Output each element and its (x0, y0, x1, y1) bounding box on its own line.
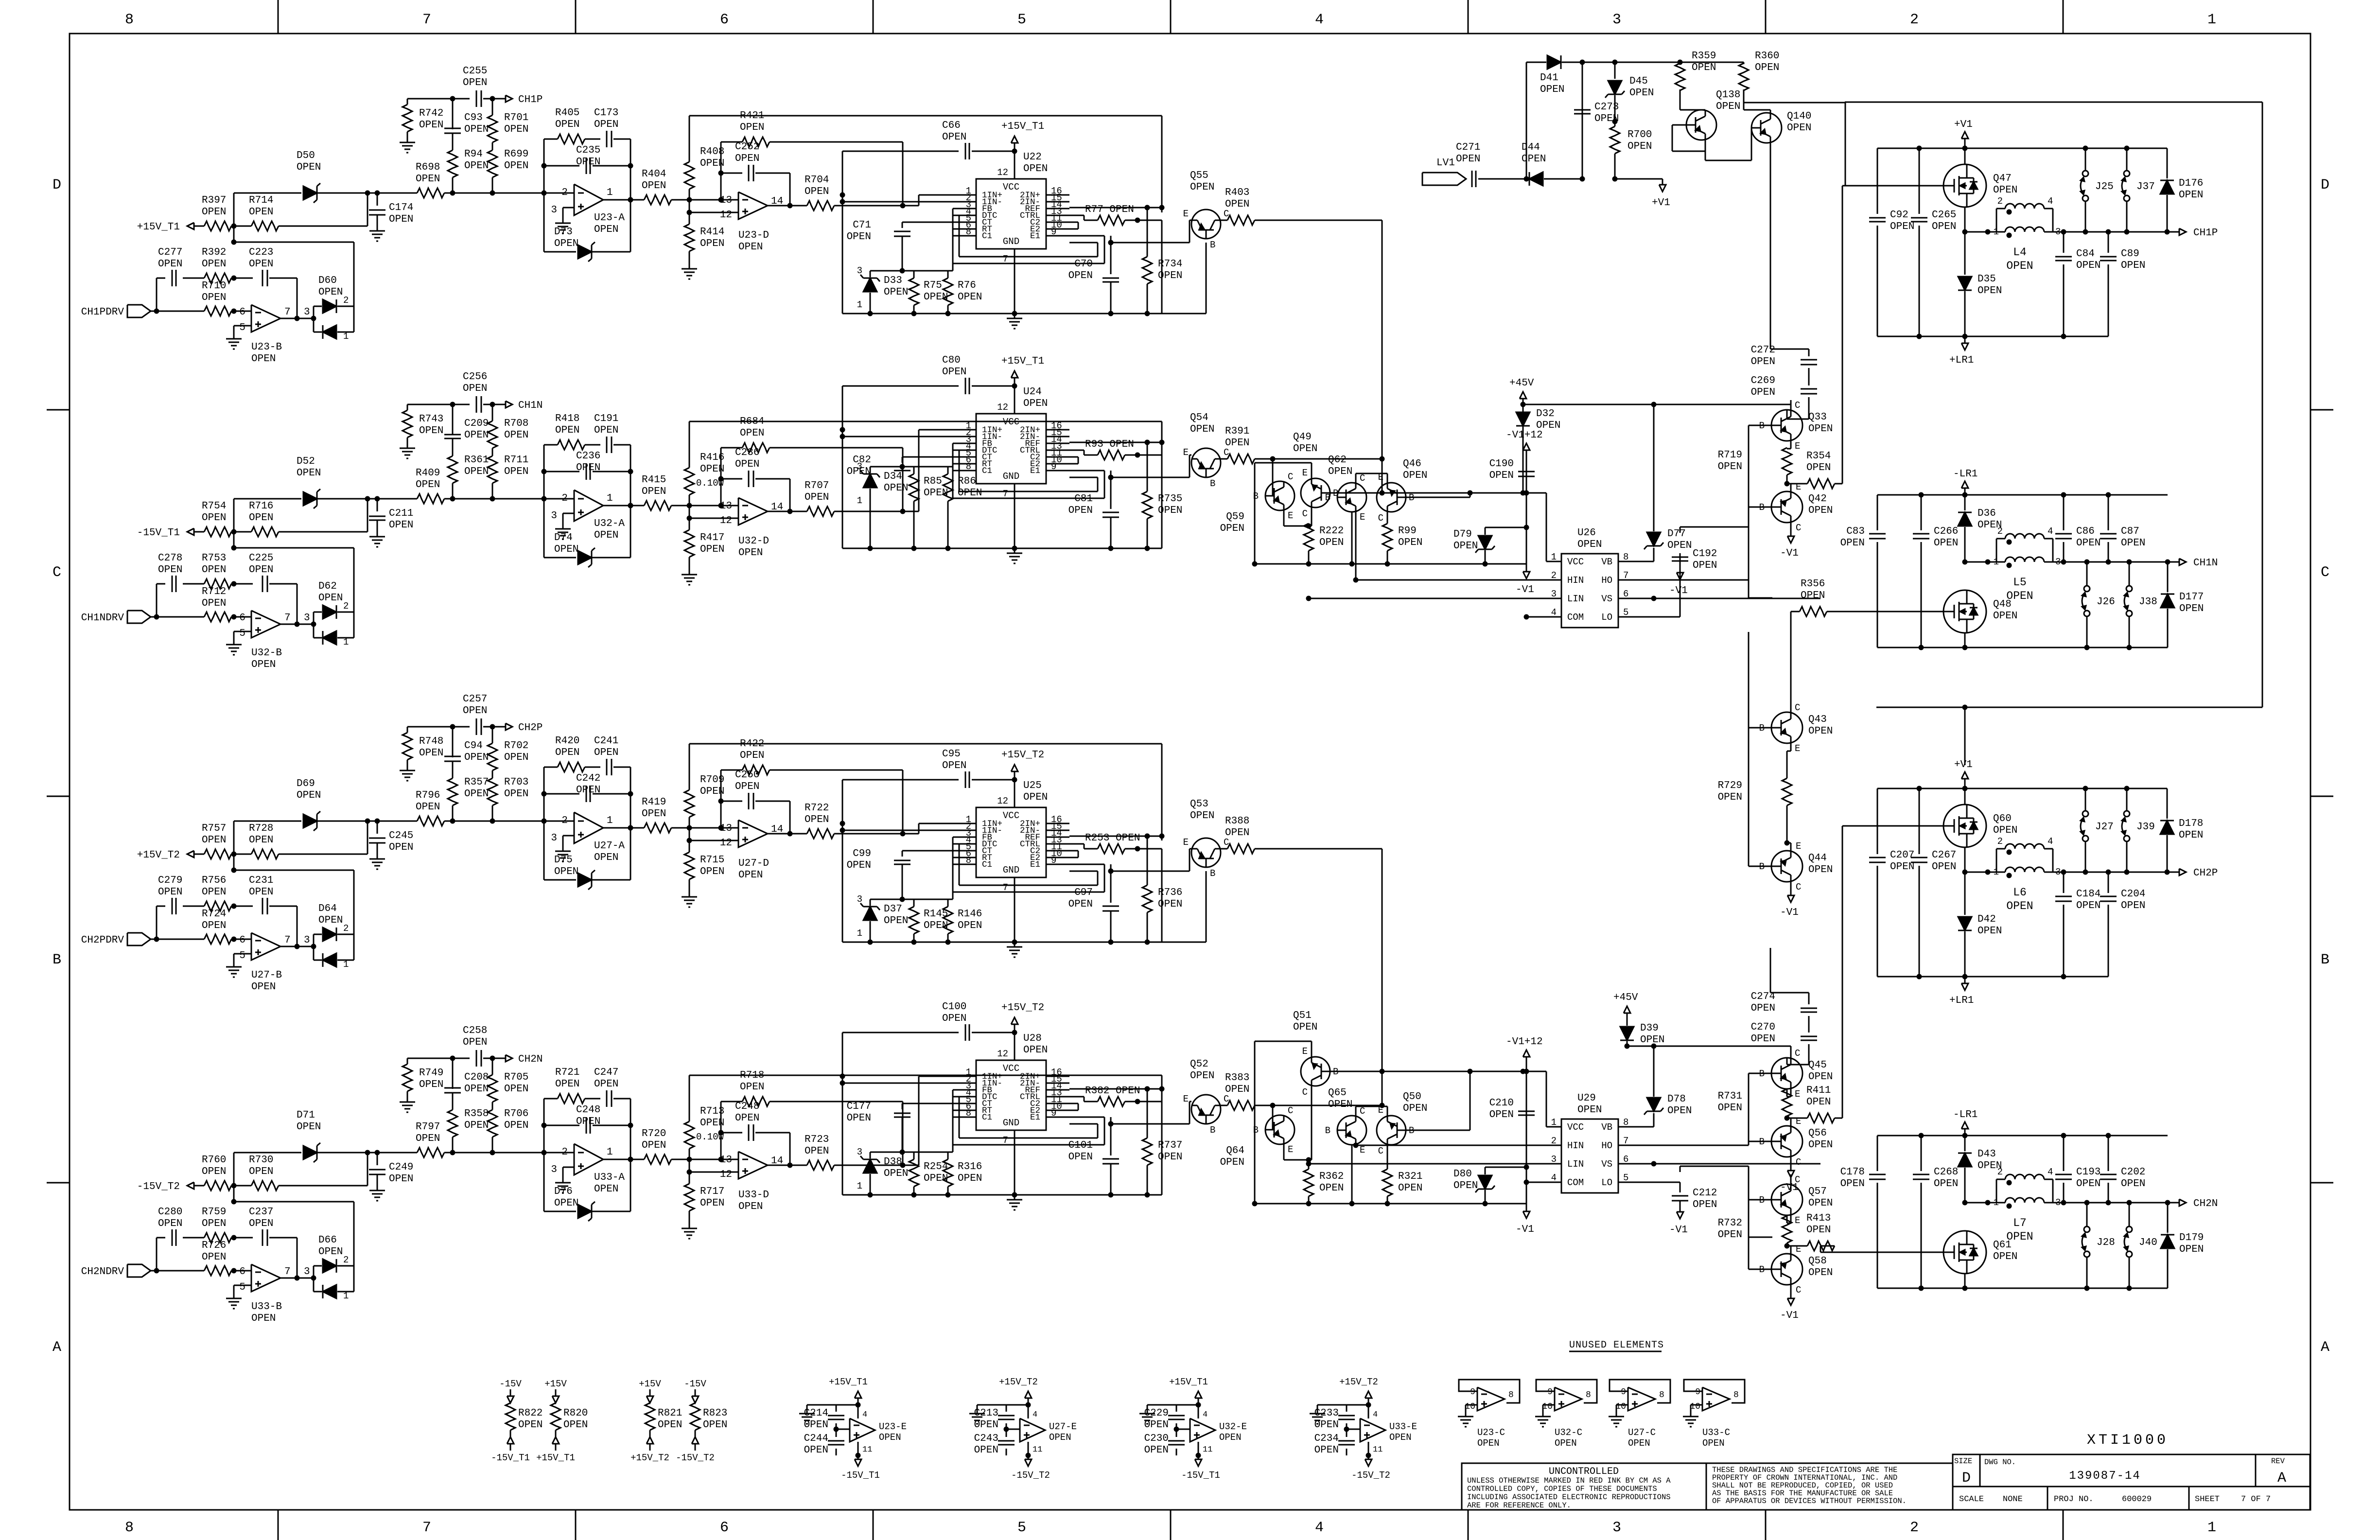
wire (718, 142, 724, 176)
diode D45 (1605, 62, 1654, 124)
svg-text:OPEN: OPEN (464, 160, 489, 172)
resistor R405 (544, 107, 585, 144)
wire (183, 583, 204, 585)
diode D38 (857, 1147, 909, 1195)
svg-text:OPEN: OPEN (555, 747, 579, 758)
svg-text:OPEN: OPEN (1456, 154, 1480, 165)
svg-text:C: C (1302, 1087, 1308, 1098)
wire (2053, 229, 2179, 235)
wire (231, 614, 252, 620)
resistor R698 (377, 162, 574, 198)
svg-text:6: 6 (239, 935, 245, 946)
svg-text:OPEN: OPEN (594, 747, 618, 758)
jumper J40 (2124, 1203, 2157, 1288)
svg-text:R754: R754 (202, 501, 226, 512)
svg-text:VB: VB (1601, 1122, 1612, 1133)
svg-text:D66: D66 (318, 1235, 337, 1246)
wire (1790, 404, 1792, 410)
svg-text:+15V_T1: +15V_T1 (829, 1377, 868, 1387)
svg-text:R796: R796 (416, 790, 440, 801)
transistor Q59 (1220, 459, 1295, 534)
wire (563, 836, 574, 846)
wire (977, 1405, 1028, 1409)
svg-text:XTI1000: XTI1000 (2087, 1432, 2169, 1449)
wire (563, 1167, 574, 1178)
svg-text:OPEN: OPEN (464, 430, 489, 441)
resistor R742 (402, 99, 443, 138)
svg-text:Q33: Q33 (1808, 412, 1827, 423)
wire (1618, 579, 1749, 581)
node -15V_T1 (137, 527, 194, 539)
svg-text:C271: C271 (1456, 142, 1480, 153)
svg-text:VCC: VCC (1003, 810, 1019, 821)
svg-text:OPEN: OPEN (249, 887, 273, 898)
resistor R421 (721, 110, 903, 206)
svg-text:12: 12 (997, 402, 1008, 413)
diode D176 (2160, 148, 2203, 232)
capacitor C66 (842, 120, 1017, 159)
svg-text:D39: D39 (1640, 1023, 1659, 1034)
resistor R723 (805, 1134, 919, 1170)
capacitor C95 (842, 749, 1017, 788)
svg-text:5: 5 (1017, 12, 1026, 28)
svg-text:J40: J40 (2139, 1237, 2157, 1248)
wire (1161, 849, 1163, 942)
svg-text:D38: D38 (884, 1156, 902, 1168)
node +15V_T2 (1001, 750, 1044, 771)
resistor R222 (1304, 524, 1344, 564)
wire (919, 430, 953, 511)
resistor R759 (202, 1207, 231, 1242)
ground (400, 443, 415, 458)
svg-text:OPEN: OPEN (1225, 827, 1249, 839)
svg-text:OPEN: OPEN (419, 425, 443, 437)
svg-text:4: 4 (1373, 1410, 1378, 1419)
svg-text:OPEN: OPEN (740, 428, 764, 439)
node -15V_T1 (841, 1453, 880, 1481)
svg-text:COM: COM (1567, 612, 1584, 623)
svg-text:OPEN: OPEN (1144, 1419, 1169, 1431)
resistor R254 (909, 1152, 948, 1195)
svg-text:R146: R146 (958, 909, 982, 920)
wire (1964, 139, 1966, 148)
svg-text:Q43: Q43 (1808, 714, 1827, 725)
svg-text:R705: R705 (504, 1072, 528, 1083)
wire (1069, 205, 1165, 210)
ground (555, 218, 571, 233)
svg-text:A: A (52, 1339, 61, 1356)
node -15V_T1 (1181, 1453, 1220, 1481)
svg-text:5: 5 (239, 628, 245, 639)
svg-text:C207: C207 (1890, 850, 1914, 861)
svg-text:OPEN: OPEN (463, 383, 487, 394)
svg-text:1: 1 (1551, 552, 1557, 562)
svg-text:OPEN: OPEN (1977, 926, 2002, 937)
svg-text:R706: R706 (504, 1108, 528, 1120)
wire (1787, 1058, 1809, 1065)
svg-text:VCC: VCC (1003, 182, 1019, 192)
ground (1310, 1409, 1325, 1424)
svg-text:OPEN: OPEN (1049, 1432, 1071, 1443)
svg-text:LV1: LV1 (1436, 157, 1455, 169)
svg-text:OPEN: OPEN (804, 1419, 828, 1431)
svg-text:OPEN: OPEN (594, 852, 618, 863)
svg-text:C1: C1 (982, 1113, 992, 1122)
wire (1255, 848, 1382, 850)
svg-text:4: 4 (2047, 196, 2053, 207)
svg-text:3: 3 (551, 205, 557, 216)
svg-text:OPEN: OPEN (1453, 1180, 1478, 1191)
svg-text:-15V_T1: -15V_T1 (841, 1470, 880, 1481)
svg-text:E: E (1795, 743, 1800, 754)
transistor Q55 (1183, 170, 1229, 250)
resistor R411 (1787, 1085, 1835, 1123)
ground (799, 1409, 815, 1424)
op-amp U33-D (720, 1152, 783, 1212)
svg-text:OPEN: OPEN (594, 1184, 618, 1195)
wire (1877, 786, 2167, 791)
wire (183, 1237, 204, 1239)
svg-text:C: C (1795, 400, 1800, 411)
wire (1069, 457, 1078, 464)
svg-text:9: 9 (1470, 1387, 1475, 1397)
node +15V_T2 (999, 1377, 1038, 1408)
svg-text:R716: R716 (249, 501, 273, 512)
ground (400, 138, 415, 153)
node -LR1 (1953, 1109, 1977, 1136)
svg-text:R403: R403 (1225, 187, 1249, 198)
svg-text:Q51: Q51 (1293, 1010, 1312, 1021)
svg-text:OPEN: OPEN (318, 593, 343, 604)
svg-text:J26: J26 (2097, 596, 2115, 608)
wire (807, 1405, 858, 1409)
wire (2053, 870, 2179, 875)
svg-text:OPEN: OPEN (1808, 1139, 1833, 1151)
capacitor C177 (847, 1101, 953, 1155)
wire (1877, 492, 2168, 498)
svg-text:7: 7 (422, 1520, 431, 1536)
wire (1748, 1141, 1750, 1145)
svg-text:OPEN: OPEN (884, 915, 908, 927)
wire (687, 516, 739, 521)
svg-text:Q46: Q46 (1403, 458, 1421, 470)
svg-text:OPEN: OPEN (740, 750, 764, 761)
svg-text:R822: R822 (518, 1408, 542, 1419)
svg-text:OPEN: OPEN (958, 292, 982, 303)
wire (919, 195, 953, 206)
op-amp U27-A (551, 812, 625, 863)
wire (1790, 1174, 1792, 1184)
resistor R797 (377, 1121, 574, 1157)
svg-text:R382 OPEN: R382 OPEN (1085, 1085, 1140, 1097)
svg-text:U27-A: U27-A (594, 840, 625, 852)
svg-text:C: C (1360, 1106, 1365, 1117)
capacitor C269 (1751, 368, 1817, 419)
transistor Q57 (1759, 1174, 1833, 1226)
svg-text:E: E (1796, 841, 1801, 852)
transistor Q49 (1293, 432, 1338, 519)
svg-text:R684: R684 (740, 416, 764, 427)
svg-text:R753: R753 (202, 553, 226, 564)
resistor R706 (488, 1108, 528, 1153)
diode D60 (314, 275, 354, 342)
svg-text:E: E (1360, 512, 1365, 523)
resistor R796 (377, 790, 574, 826)
wire (1523, 402, 1791, 407)
node +15V_T1 (1169, 1377, 1208, 1408)
svg-text:D37: D37 (884, 904, 902, 915)
svg-text:C212: C212 (1693, 1188, 1717, 1199)
svg-text:Q62: Q62 (1328, 455, 1347, 466)
wire (1255, 561, 1526, 567)
svg-text:Q44: Q44 (1808, 853, 1827, 864)
resistor R417 (684, 506, 724, 570)
wire (563, 208, 574, 218)
svg-text:LIN: LIN (1567, 1159, 1584, 1170)
ground (369, 226, 385, 241)
wire (231, 193, 354, 306)
svg-text:OPEN: OPEN (1144, 1445, 1169, 1456)
wire (234, 821, 301, 822)
svg-text:C: C (1360, 473, 1365, 484)
svg-text:Q50: Q50 (1403, 1091, 1421, 1102)
op-amp U27-E (1006, 1405, 1077, 1455)
wire (1618, 1145, 1749, 1146)
wire (1255, 456, 1385, 462)
node +15V_T2 (630, 1430, 669, 1463)
svg-text:A: A (2277, 1470, 2286, 1487)
wire (1306, 596, 1562, 601)
svg-text:5: 5 (239, 950, 245, 962)
svg-text:OPEN: OPEN (1934, 538, 1958, 549)
svg-text:R699: R699 (504, 149, 528, 160)
resistor R146 (943, 899, 982, 942)
svg-text:OPEN: OPEN (2076, 900, 2100, 911)
wire (151, 309, 204, 314)
svg-text:OPEN: OPEN (202, 207, 226, 218)
wire (483, 402, 506, 407)
svg-text:LO: LO (1601, 1177, 1612, 1188)
svg-text:J39: J39 (2136, 822, 2155, 833)
node CH2P (506, 722, 542, 734)
svg-text:OPEN: OPEN (1993, 825, 2017, 836)
svg-text:+LR1: +LR1 (1949, 355, 1974, 366)
note UNCONTROLLED (1462, 1463, 1706, 1510)
svg-text:VS: VS (1601, 1159, 1612, 1170)
svg-text:R76: R76 (958, 280, 976, 291)
svg-text:OPEN: OPEN (1806, 462, 1831, 473)
svg-text:C99: C99 (853, 848, 871, 859)
svg-text:OPEN: OPEN (463, 705, 487, 717)
svg-text:-V1+12: -V1+12 (1506, 1036, 1543, 1048)
svg-text:D32: D32 (1536, 408, 1555, 420)
svg-text:2: 2 (1997, 836, 2003, 847)
resistor R709 (684, 744, 724, 828)
jumper J38 (2124, 562, 2157, 647)
capacitor C83 (1840, 495, 1886, 647)
capacitor C234 (1314, 1429, 1355, 1456)
svg-text:OPEN: OPEN (202, 1252, 226, 1263)
capacitor C278 (158, 553, 182, 592)
capacitor C241 (585, 735, 630, 775)
svg-text:Q48: Q48 (1993, 599, 2012, 610)
wire (231, 821, 354, 934)
svg-text:D50: D50 (297, 150, 315, 161)
capacitor C267 (1911, 788, 1956, 977)
svg-text:10: 10 (1690, 1402, 1700, 1412)
svg-text:1: 1 (1994, 227, 1999, 237)
ground (226, 334, 242, 349)
wire (151, 937, 204, 942)
svg-text:D74: D74 (554, 532, 573, 543)
svg-text:OPEN: OPEN (464, 788, 489, 800)
svg-text:OPEN: OPEN (554, 1198, 578, 1209)
wire (1680, 527, 1772, 598)
wire (183, 906, 204, 907)
svg-text:OPEN: OPEN (1693, 1199, 1717, 1210)
svg-text:6: 6 (239, 307, 245, 318)
op-amp U33-B (239, 1264, 290, 1324)
svg-text:D41: D41 (1540, 72, 1558, 84)
svg-text:OPEN: OPEN (974, 1445, 998, 1456)
resistor R715 (684, 828, 724, 892)
svg-text:1: 1 (2207, 12, 2216, 28)
svg-text:OPEN: OPEN (942, 367, 966, 378)
svg-text:R722: R722 (805, 803, 829, 814)
svg-text:R391: R391 (1225, 426, 1249, 437)
svg-text:Q56: Q56 (1808, 1128, 1827, 1139)
capacitor C178 (1840, 1136, 1886, 1288)
resistor R702 (488, 727, 528, 778)
wire (1524, 614, 1562, 620)
svg-text:U27-B: U27-B (251, 970, 282, 981)
ground (369, 1186, 385, 1201)
wire (842, 940, 1162, 945)
svg-text:SIZE: SIZE (1954, 1457, 1972, 1466)
ground (682, 264, 697, 279)
svg-text:E: E (1795, 1089, 1800, 1100)
svg-text:OPEN: OPEN (738, 242, 763, 253)
svg-text:OPEN: OPEN (249, 1218, 273, 1229)
svg-text:+15V_T2: +15V_T2 (1001, 1002, 1044, 1014)
svg-text:OPEN: OPEN (1806, 1225, 1831, 1236)
svg-text:OPEN: OPEN (1716, 101, 1740, 112)
capacitor C270 (1751, 1016, 1817, 1065)
capacitor C256 (463, 371, 487, 413)
svg-text:OPEN: OPEN (805, 492, 829, 503)
svg-text:C92: C92 (1890, 210, 1908, 221)
svg-text:OPEN: OPEN (884, 1168, 908, 1179)
svg-text:R405: R405 (555, 107, 579, 119)
resistor R413 (1787, 1213, 1835, 1251)
svg-text:D52: D52 (297, 456, 315, 467)
capacitor C86 (2055, 495, 2100, 562)
resistor R756 (202, 875, 231, 911)
svg-text:OPEN: OPEN (504, 430, 528, 441)
wire (1161, 455, 1163, 548)
node CH2P (2179, 868, 2218, 879)
svg-text:1: 1 (857, 928, 862, 939)
svg-text:R743: R743 (419, 414, 443, 425)
svg-text:OPEN: OPEN (942, 132, 966, 143)
svg-text:1: 1 (343, 959, 349, 970)
diode D177 (2161, 562, 2204, 647)
resistor R719 (1718, 441, 1792, 484)
resistor R408 (684, 116, 724, 200)
wire (919, 823, 953, 834)
svg-text:OPEN: OPEN (419, 748, 443, 759)
wire (269, 584, 297, 624)
svg-text:GND: GND (1003, 236, 1019, 247)
svg-text:C: C (1378, 513, 1383, 524)
svg-text:600029: 600029 (2122, 1495, 2152, 1504)
svg-text:OPEN: OPEN (2076, 260, 2100, 271)
svg-text:C208: C208 (464, 1072, 489, 1083)
svg-text:1: 1 (857, 495, 862, 506)
capacitor C209 (444, 404, 489, 441)
svg-text:OPEN: OPEN (1068, 505, 1093, 516)
diode D50 (297, 150, 367, 203)
svg-text:CH1N: CH1N (2193, 558, 2218, 569)
resistor R403 (1221, 187, 1255, 225)
svg-text:OPEN: OPEN (1220, 1157, 1244, 1168)
wire (1877, 334, 2108, 339)
svg-text:OPEN: OPEN (1932, 861, 1956, 873)
node CH2N (506, 1054, 542, 1065)
wire (367, 1150, 380, 1166)
svg-text:R418: R418 (555, 413, 579, 424)
svg-text:U23-D: U23-D (738, 230, 769, 241)
svg-text:OPEN: OPEN (1993, 185, 2017, 196)
svg-text:3: 3 (857, 894, 862, 905)
wire (842, 436, 953, 437)
svg-text:R388: R388 (1225, 816, 1249, 827)
wire (377, 842, 378, 854)
svg-text:HO: HO (1601, 1140, 1612, 1151)
capacitor C212 (1672, 1182, 1717, 1212)
resistor R86 (943, 467, 982, 548)
svg-text:C86: C86 (2076, 526, 2095, 537)
svg-text:R93 OPEN: R93 OPEN (1085, 439, 1134, 450)
wire (718, 448, 724, 482)
resistor R820 (551, 1403, 588, 1431)
svg-text:OPEN: OPEN (1627, 141, 1652, 152)
svg-text:12: 12 (720, 210, 732, 221)
svg-text:D73: D73 (554, 227, 573, 238)
svg-text:D62: D62 (318, 581, 337, 592)
svg-text:OPEN: OPEN (158, 564, 182, 576)
node +15V_T1 (536, 1430, 575, 1463)
svg-text:B: B (1253, 491, 1259, 502)
wire (1108, 849, 1192, 874)
resistor R94 (448, 133, 489, 193)
transistor Q62 (1325, 455, 1366, 523)
svg-text:OPEN: OPEN (202, 887, 226, 898)
svg-text:OPEN: OPEN (202, 259, 226, 270)
svg-text:C71: C71 (853, 220, 871, 231)
capacitor C235 (544, 145, 630, 174)
svg-text:R383: R383 (1225, 1072, 1249, 1084)
diode D74 (544, 532, 630, 567)
resistor R757 (194, 823, 231, 859)
wire (1744, 110, 1770, 113)
node +15V_T2 (1001, 1002, 1044, 1024)
svg-text:R354: R354 (1806, 451, 1831, 462)
svg-text:OPEN: OPEN (504, 1084, 528, 1095)
resistor R700 (1610, 122, 1652, 182)
svg-text:C256: C256 (463, 371, 487, 383)
svg-text:R704: R704 (805, 175, 829, 186)
